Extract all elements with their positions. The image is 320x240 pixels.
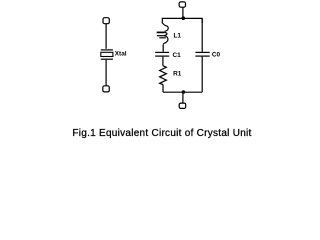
crystal Xtal <box>101 50 113 59</box>
wire top rail <box>162 18 202 23</box>
svg-text:Xtal: Xtal <box>115 50 127 57</box>
wire <box>182 7 184 17</box>
svg-text:L1: L1 <box>174 32 182 39</box>
wire <box>105 60 107 86</box>
terminal T4 (equivalent circuit bottom) <box>179 103 186 108</box>
svg-text:R1: R1 <box>173 70 182 77</box>
node bottom junction <box>182 90 186 94</box>
terminal T3 (equivalent circuit top) <box>179 2 185 7</box>
capacitor C1 <box>155 52 169 56</box>
terminal T2 (crystal bottom) <box>103 86 110 92</box>
svg-text:C1: C1 <box>173 52 182 59</box>
resistor R1 <box>160 66 167 85</box>
wire <box>201 18 203 52</box>
wire <box>105 24 107 49</box>
wire bottom rail <box>163 91 202 93</box>
node top junction <box>182 16 186 20</box>
capacitor C0 <box>195 52 209 56</box>
wire <box>201 57 203 93</box>
wire <box>162 57 164 66</box>
wire <box>162 45 164 52</box>
inductor L1 <box>157 25 169 44</box>
wire <box>162 23 165 26</box>
svg-text:C0: C0 <box>212 51 221 58</box>
terminal T1 (crystal top) <box>103 18 109 24</box>
wire <box>182 92 184 103</box>
caption <box>72 128 251 139</box>
wire <box>162 85 164 93</box>
